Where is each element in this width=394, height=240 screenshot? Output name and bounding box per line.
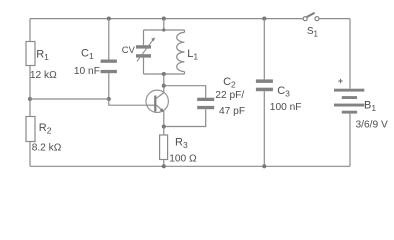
node C3 top rail junction bbox=[262, 17, 266, 21]
svg-text:R3: R3 bbox=[175, 137, 188, 151]
node collector / C2 branch bbox=[162, 84, 166, 88]
svg-text:R2: R2 bbox=[39, 122, 52, 136]
node emitter / C2 bottom junction bbox=[162, 124, 166, 128]
wire left rail top (to R1) bbox=[29, 19, 31, 42]
inductor L1 bbox=[177, 30, 199, 74]
node tank top on rail bbox=[162, 17, 166, 21]
svg-text:L1: L1 bbox=[187, 48, 198, 62]
node base-divider junction (left) bbox=[28, 97, 32, 101]
transistor Q1 bbox=[146, 90, 168, 112]
wire rail to tank top bar bbox=[163, 19, 165, 30]
capacitor C3 bbox=[256, 19, 290, 167]
resistor R1 bbox=[26, 42, 49, 66]
svg-text:B1: B1 bbox=[364, 99, 376, 113]
svg-text:C1: C1 bbox=[81, 48, 94, 62]
resistor R3 bbox=[160, 135, 188, 160]
node C3 bottom rail junction bbox=[262, 164, 266, 168]
wire R1 to base node bbox=[29, 66, 31, 100]
svg-text:10 nF: 10 nF bbox=[74, 66, 100, 77]
wire bottom rail bbox=[30, 165, 350, 167]
wire right rail bottom bbox=[349, 114, 351, 167]
capacitor C2 bbox=[197, 76, 236, 109]
capacitor C1 bbox=[81, 17, 117, 99]
wire tank bottom bar bbox=[144, 73, 185, 75]
svg-text:8.2 kΩ: 8.2 kΩ bbox=[32, 143, 62, 154]
resistor R2 bbox=[26, 99, 52, 142]
svg-text:12 kΩ: 12 kΩ bbox=[30, 70, 57, 81]
wire base: divider to C1 node bbox=[30, 98, 109, 100]
wire tank to collector bbox=[163, 74, 165, 93]
svg-text:47 pF: 47 pF bbox=[219, 106, 245, 117]
variable capacitor CV bbox=[122, 30, 155, 74]
wire base step down bbox=[109, 99, 155, 105]
svg-text:22 pF/: 22 pF/ bbox=[215, 90, 244, 101]
switch S1 bbox=[303, 13, 319, 39]
svg-text:CV: CV bbox=[122, 44, 136, 55]
svg-text:3/6/9 V: 3/6/9 V bbox=[356, 120, 388, 131]
wire R2 to bottom rail bbox=[29, 142, 31, 167]
svg-text:R1: R1 bbox=[36, 49, 49, 63]
wire R3 to bottom rail bbox=[163, 160, 165, 167]
wire top rail left segment bbox=[30, 18, 303, 20]
node tank bottom bar center bbox=[162, 72, 166, 76]
wire C2 bottom to emitter node bbox=[164, 109, 206, 126]
wire top rail right segment bbox=[319, 18, 350, 20]
battery B1 bbox=[334, 79, 376, 114]
svg-text:S1: S1 bbox=[307, 26, 319, 39]
wire tank top bar bbox=[144, 29, 185, 31]
svg-text:100 nF: 100 nF bbox=[270, 102, 302, 113]
node C1/base junction bbox=[107, 97, 111, 101]
node tank top bar center bbox=[162, 28, 165, 31]
wire collector node to C2 top bbox=[164, 86, 206, 98]
wire emitter down bbox=[163, 110, 165, 135]
svg-text:100 Ω: 100 Ω bbox=[169, 154, 197, 165]
svg-text:C2: C2 bbox=[223, 76, 236, 90]
svg-text:C3: C3 bbox=[277, 85, 290, 99]
node R3 bottom rail junction bbox=[162, 164, 166, 168]
wire right rail top bbox=[349, 19, 351, 89]
